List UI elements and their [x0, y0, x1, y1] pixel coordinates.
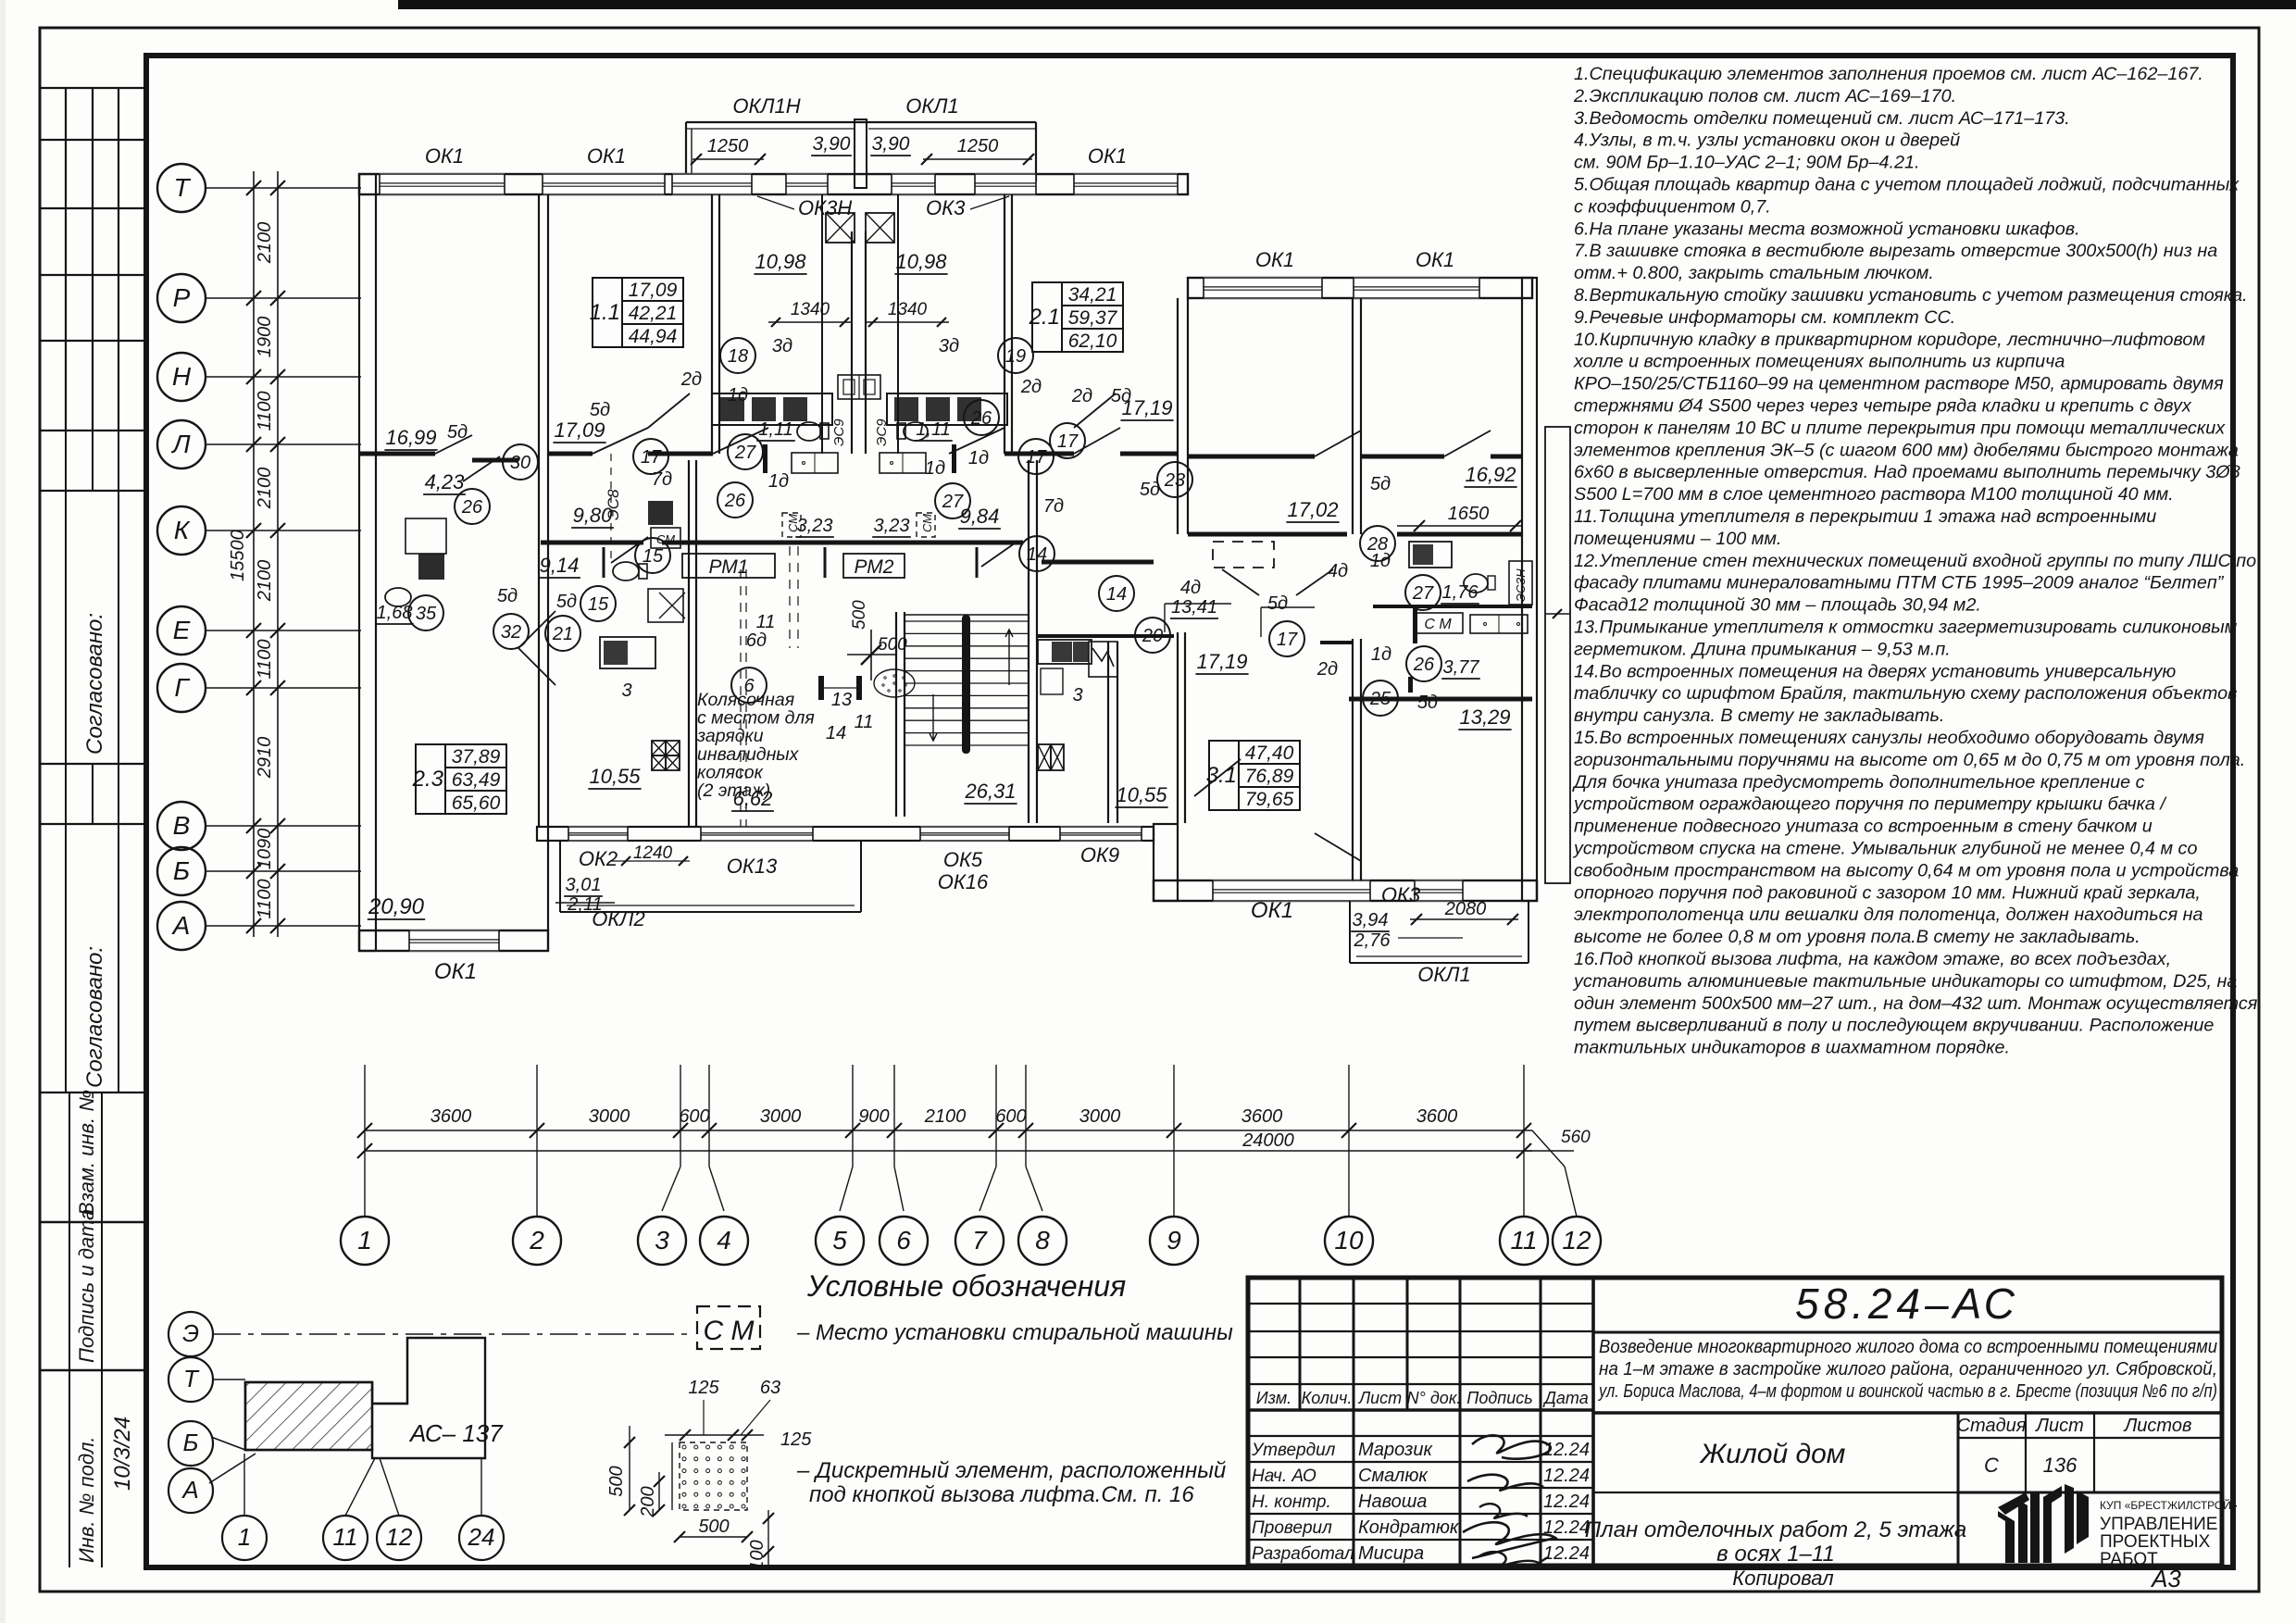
svg-text:125: 125: [688, 1378, 719, 1398]
svg-text:20: 20: [1142, 626, 1163, 646]
svg-text:24000: 24000: [1242, 1130, 1294, 1151]
svg-text:ОК1: ОК1: [1255, 248, 1294, 271]
svg-text:59,37: 59,37: [1068, 307, 1118, 329]
svg-text:Возведение многоквартирного жи: Возведение многоквартирного жилого дома …: [1599, 1337, 2217, 1357]
svg-text:3: 3: [1072, 685, 1082, 705]
svg-text:13: 13: [831, 690, 852, 710]
svg-text:62,10: 62,10: [1068, 331, 1117, 352]
svg-text:ОК9: ОК9: [1080, 843, 1119, 867]
svg-text:ОКЛ2: ОКЛ2: [592, 907, 644, 930]
svg-text:отм.+ 0.800, закрыть стальным: отм.+ 0.800, закрыть стальным лючком.: [1574, 263, 1934, 283]
svg-text:26,31: 26,31: [964, 780, 1016, 803]
svg-text:внутри санузла. В смету не зак: внутри санузла. В смету не закладывать.: [1574, 705, 1944, 726]
svg-text:сторон к панелям 10 ВС и плите: сторон к панелям 10 ВС и плите перекрыти…: [1574, 418, 2226, 438]
svg-text:ОК1: ОК1: [1416, 248, 1454, 271]
svg-text:Н. контр.: Н. контр.: [1252, 1492, 1331, 1512]
svg-text:2д: 2д: [680, 369, 702, 390]
svg-text:20,90: 20,90: [368, 894, 425, 919]
svg-text:6д: 6д: [746, 630, 767, 651]
svg-text:3000: 3000: [589, 1106, 630, 1127]
svg-text:1100: 1100: [255, 391, 275, 431]
svg-text:21: 21: [552, 624, 573, 644]
svg-text:15: 15: [643, 546, 664, 567]
svg-text:С: С: [1984, 1454, 1999, 1477]
svg-text:26: 26: [461, 497, 483, 518]
svg-text:44,94: 44,94: [629, 326, 678, 347]
svg-text:А: А: [181, 1476, 198, 1504]
svg-text:63: 63: [760, 1378, 780, 1398]
svg-text:Т: Т: [173, 173, 191, 202]
svg-text:ОК1: ОК1: [434, 959, 477, 984]
svg-text:ул. Бориса Маслова, 4–м фортом: ул. Бориса Маслова, 4–м фортом и воинско…: [1597, 1381, 2217, 1402]
svg-text:Стадия: Стадия: [1957, 1416, 2027, 1436]
svg-text:ОКЛ1Н: ОКЛ1Н: [732, 94, 800, 118]
svg-text:холле и встроенных помещениях: холле и встроенных помещениях выполнить …: [1573, 352, 2065, 372]
svg-text:17: 17: [1277, 630, 1298, 650]
svg-text:1340: 1340: [791, 300, 830, 319]
svg-text:3,23: 3,23: [874, 516, 910, 536]
svg-text:Копировал: Копировал: [1732, 1567, 1833, 1590]
svg-text:3: 3: [621, 680, 631, 701]
svg-text:9: 9: [1167, 1226, 1181, 1255]
svg-text:2100: 2100: [924, 1106, 967, 1127]
svg-text:3д: 3д: [772, 336, 792, 356]
svg-text:ОКЛ1: ОКЛ1: [1417, 963, 1470, 986]
svg-text:2.1: 2.1: [1029, 305, 1060, 330]
svg-text:Дата: Дата: [1542, 1389, 1589, 1407]
svg-text:13.Примыкание утеплителя к отм: 13.Примыкание утеплителя к отмостки заге…: [1574, 618, 2238, 638]
svg-text:17: 17: [1026, 447, 1047, 468]
svg-text:28: 28: [1366, 534, 1388, 555]
svg-text:Мисира: Мисира: [1358, 1543, 1424, 1564]
svg-text:А3: А3: [2150, 1565, 2181, 1592]
svg-text:1250: 1250: [957, 136, 999, 156]
svg-text:3,23: 3,23: [797, 516, 833, 536]
svg-text:37,89: 37,89: [452, 746, 501, 768]
svg-text:65,60: 65,60: [452, 793, 501, 814]
svg-text:35: 35: [416, 604, 437, 624]
svg-text:10,55: 10,55: [589, 765, 641, 788]
svg-text:Б: Б: [183, 1429, 199, 1456]
svg-text:24: 24: [468, 1523, 495, 1551]
svg-text:ОК1: ОК1: [1251, 898, 1293, 923]
svg-text:14: 14: [826, 723, 846, 743]
svg-text:2д: 2д: [1020, 377, 1042, 397]
svg-text:(2 этаж): (2 этаж): [697, 780, 770, 801]
svg-text:С М: С М: [704, 1316, 755, 1346]
svg-text:7.В зашивке стояка в вестибюле: 7.В зашивке стояка в вестибюле вырезать …: [1574, 241, 2217, 261]
svg-text:ПРОЕКТНЫХ: ПРОЕКТНЫХ: [2100, 1532, 2211, 1552]
svg-text:– Место установки стиральной м: – Место установки стиральной машины: [796, 1320, 1233, 1345]
svg-text:УПРАВЛЕНИЕ: УПРАВЛЕНИЕ: [2100, 1515, 2217, 1534]
svg-text:1.Спецификацию элементов запол: 1.Спецификацию элементов заполнения прое…: [1574, 64, 2203, 84]
svg-text:устройством ограждающего поруч: устройством ограждающего поручня по пери…: [1572, 794, 2167, 815]
svg-text:СМ: СМ: [920, 514, 934, 532]
svg-text:6: 6: [896, 1226, 911, 1255]
svg-text:5д: 5д: [1111, 386, 1131, 406]
svg-text:5д: 5д: [1417, 693, 1438, 713]
svg-text:Н: Н: [172, 362, 192, 391]
svg-text:17: 17: [641, 447, 662, 468]
svg-text:К: К: [174, 516, 191, 544]
svg-text:А: А: [171, 911, 191, 940]
svg-text:под кнопкой вызова лифта.См. п: под кнопкой вызова лифта.См. п. 16: [809, 1482, 1194, 1507]
svg-text:ЭС9: ЭС9: [831, 418, 847, 446]
svg-text:Б: Б: [173, 856, 190, 885]
svg-text:Разработал: Разработал: [1252, 1544, 1354, 1564]
svg-text:1,11: 1,11: [916, 419, 950, 440]
svg-text:2,76: 2,76: [1354, 930, 1391, 951]
svg-text:2.3: 2.3: [412, 767, 444, 792]
svg-text:2080: 2080: [1444, 899, 1487, 919]
svg-text:тактильных индикаторов в шахма: тактильных индикаторов в шахматном поряд…: [1574, 1038, 2010, 1058]
svg-text:РМ2: РМ2: [855, 556, 894, 578]
svg-text:Подпись и дата: Подпись и дата: [75, 1209, 98, 1363]
svg-text:электрополотенца или вешалки д: электрополотенца или вешалки для полотен…: [1574, 905, 2203, 925]
svg-text:1900: 1900: [255, 317, 275, 358]
svg-text:РМ1: РМ1: [709, 556, 749, 578]
svg-text:900: 900: [858, 1106, 889, 1127]
svg-text:1100: 1100: [255, 639, 275, 679]
svg-text:9,80: 9,80: [573, 504, 614, 527]
svg-text:3,94: 3,94: [1353, 910, 1389, 930]
svg-text:– Дискретный элемент, располож: – Дискретный элемент, расположенный: [796, 1458, 1226, 1483]
svg-text:2100: 2100: [255, 560, 275, 603]
svg-text:7д: 7д: [1043, 496, 1064, 517]
svg-text:2д: 2д: [1316, 659, 1338, 680]
svg-text:27: 27: [734, 443, 756, 463]
svg-text:Инв. № подл.: Инв. № подл.: [75, 1436, 98, 1563]
svg-text:4д: 4д: [1180, 578, 1201, 598]
svg-text:С М: С М: [1424, 617, 1452, 632]
svg-text:23: 23: [1164, 470, 1185, 491]
svg-text:17,02: 17,02: [1287, 498, 1338, 521]
svg-text:Марозик: Марозик: [1358, 1440, 1433, 1460]
svg-text:1д: 1д: [925, 458, 945, 479]
svg-text:Проверил: Проверил: [1252, 1518, 1332, 1538]
svg-text:27: 27: [942, 492, 964, 512]
svg-text:5д: 5д: [1370, 474, 1391, 494]
svg-text:1: 1: [238, 1523, 251, 1551]
svg-text:26: 26: [970, 408, 992, 429]
svg-text:КУП «БРЕСТЖИЛСТРОЙ»: КУП «БРЕСТЖИЛСТРОЙ»: [2100, 1498, 2238, 1512]
svg-text:12: 12: [1562, 1226, 1591, 1255]
svg-text:12.24: 12.24: [1543, 1466, 1590, 1486]
svg-text:устройством спуска на стене. У: устройством спуска на стене. Умывальник …: [1572, 839, 2197, 859]
svg-text:Л: Л: [170, 430, 191, 458]
svg-text:11: 11: [855, 712, 874, 732]
svg-text:ОК5: ОК5: [943, 848, 983, 871]
svg-text:34,21: 34,21: [1068, 284, 1117, 306]
svg-text:План отделочных работ 2, 5 эта: План отделочных работ 2, 5 этажа: [1585, 1517, 1966, 1542]
svg-text:11.Толщина утеплителя в перекр: 11.Толщина утеплителя в перекрытии 1 эта…: [1574, 506, 2156, 527]
svg-text:2100: 2100: [255, 468, 275, 510]
svg-text:14.Во встроенных помещения на: 14.Во встроенных помещения на дверях уст…: [1574, 661, 2176, 681]
svg-text:Фасад12 толщиной 30 мм – площа: Фасад12 толщиной 30 мм – площадь 30,94 м…: [1574, 595, 1981, 616]
svg-text:12.24: 12.24: [1543, 1543, 1590, 1564]
svg-text:Подпись: Подпись: [1466, 1389, 1532, 1407]
svg-text:1250: 1250: [707, 136, 749, 156]
svg-text:26: 26: [724, 491, 746, 511]
svg-text:6х60 в высверленные отверстия.: 6х60 в высверленные отверстия. Над проем…: [1574, 462, 2240, 482]
svg-text:1100: 1100: [255, 879, 275, 918]
svg-text:Смалюк: Смалюк: [1358, 1466, 1429, 1486]
svg-text:500: 500: [698, 1517, 729, 1537]
svg-text:ОК1: ОК1: [587, 144, 626, 168]
svg-text:30: 30: [510, 453, 530, 473]
svg-text:с коэффициентом 0,7.: с коэффициентом 0,7.: [1574, 196, 1771, 217]
svg-text:1.1: 1.1: [590, 300, 620, 325]
svg-text:1д: 1д: [768, 471, 789, 492]
svg-text:3600: 3600: [1416, 1106, 1458, 1127]
svg-text:установить алюминиевые тактиль: установить алюминиевые тактильные индика…: [1572, 971, 2237, 992]
svg-text:РАБОТ: РАБОТ: [2100, 1550, 2158, 1569]
svg-text:3: 3: [655, 1226, 669, 1255]
svg-text:9,84: 9,84: [960, 505, 1000, 528]
svg-text:5д: 5д: [497, 586, 518, 606]
svg-text:2910: 2910: [255, 737, 275, 780]
svg-text:16,92: 16,92: [1465, 463, 1516, 486]
svg-text:2д: 2д: [1071, 386, 1092, 406]
svg-text:Колич.: Колич.: [1302, 1389, 1353, 1407]
svg-text:9.Речевые информаторы см. комп: 9.Речевые информаторы см. комплект СС.: [1574, 307, 1955, 328]
svg-text:17,09: 17,09: [554, 418, 605, 442]
svg-text:1д: 1д: [728, 385, 748, 406]
svg-text:3,77: 3,77: [1443, 657, 1480, 678]
svg-text:13,29: 13,29: [1459, 705, 1510, 729]
svg-text:элементов крепления ЭК–5 (с ша: элементов крепления ЭК–5 (с шагом 600 мм…: [1574, 440, 2239, 460]
svg-text:500: 500: [850, 600, 869, 630]
svg-text:Р: Р: [173, 283, 191, 312]
svg-text:см. 90М Бр–1.10–УАС 2–1; 90М Б: см. 90М Бр–1.10–УАС 2–1; 90М Бр–4.21.: [1574, 153, 1920, 173]
svg-text:Утвердил: Утвердил: [1251, 1441, 1336, 1460]
svg-text:14: 14: [1027, 544, 1047, 565]
svg-text:высоте не более 0,8 м от уровн: высоте не более 0,8 м от уровня пола.В с…: [1574, 927, 2140, 947]
svg-text:ОК16: ОК16: [938, 870, 989, 893]
svg-text:13,41: 13,41: [1171, 597, 1217, 618]
svg-text:ЭС9: ЭС9: [874, 418, 890, 446]
svg-text:S500 L=700 мм в слое цементног: S500 L=700 мм в слое цементного раствора…: [1574, 484, 2174, 505]
svg-text:1д: 1д: [1371, 644, 1391, 665]
svg-text:1д: 1д: [968, 448, 989, 468]
svg-text:8.Вертикальную стойку зашивки: 8.Вертикальную стойку зашивки установить…: [1574, 285, 2248, 306]
svg-text:7: 7: [972, 1226, 988, 1255]
svg-text:16.Под кнопкой вызова лифта, н: 16.Под кнопкой вызова лифта, на каждом э…: [1574, 949, 2171, 969]
svg-text:600: 600: [679, 1106, 709, 1127]
svg-text:герметиком. Длина примыкания –: герметиком. Длина примыкания – 9,53 м.п.: [1574, 639, 1951, 659]
svg-text:10,55: 10,55: [1116, 783, 1167, 806]
svg-text:10,98: 10,98: [895, 250, 947, 273]
svg-text:1340: 1340: [888, 300, 928, 319]
svg-text:26: 26: [1413, 655, 1435, 675]
svg-text:63,49: 63,49: [452, 769, 501, 791]
svg-text:ОК1: ОК1: [1088, 144, 1127, 168]
svg-text:помещениями – 100 мм.: помещениями – 100 мм.: [1574, 529, 1781, 549]
svg-text:3,90: 3,90: [813, 133, 851, 155]
svg-text:15.Во встроенных помещениях са: 15.Во встроенных помещениях санузлы необ…: [1574, 728, 2204, 748]
svg-text:10: 10: [1334, 1226, 1364, 1255]
svg-text:47,40: 47,40: [1245, 743, 1294, 764]
svg-text:3000: 3000: [760, 1106, 802, 1127]
svg-text:Т: Т: [183, 1365, 200, 1392]
svg-text:11: 11: [333, 1523, 358, 1551]
svg-text:12: 12: [386, 1523, 413, 1551]
svg-text:N° док.: N° док.: [1407, 1389, 1462, 1407]
svg-text:15500: 15500: [228, 530, 248, 581]
svg-text:табличку со шрифтом Брайля, та: табличку со шрифтом Брайля, тактильную с…: [1574, 683, 2237, 704]
svg-text:125: 125: [780, 1429, 812, 1450]
svg-text:200: 200: [638, 1486, 658, 1517]
svg-text:один элемент 500х500 мм–27 шт.: один элемент 500х500 мм–27 шт., на дом–4…: [1574, 993, 2258, 1014]
svg-text:опорного поручня под раковиной: опорного поручня под раковиной с зазором…: [1574, 882, 2201, 903]
svg-text:8: 8: [1035, 1226, 1050, 1255]
svg-text:27: 27: [1412, 583, 1434, 604]
svg-text:ОК3: ОК3: [926, 196, 966, 219]
svg-text:10,98: 10,98: [755, 250, 806, 273]
svg-text:500: 500: [606, 1466, 627, 1496]
svg-text:11: 11: [1510, 1226, 1537, 1255]
svg-text:5.Общая площадь квартир дана с: 5.Общая площадь квартир дана с учетом пл…: [1574, 175, 2240, 195]
svg-text:100: 100: [747, 1540, 767, 1570]
svg-text:19: 19: [1005, 346, 1026, 367]
svg-text:42,21: 42,21: [629, 303, 678, 324]
svg-text:25: 25: [1369, 689, 1391, 709]
svg-text:1,76: 1,76: [1442, 582, 1479, 603]
svg-text:5д: 5д: [556, 592, 577, 612]
svg-text:ЭСЗН: ЭСЗН: [1514, 568, 1528, 602]
svg-text:5д: 5д: [1267, 593, 1288, 614]
svg-text:Е: Е: [173, 616, 191, 644]
svg-text:Нач. АО: Нач. АО: [1252, 1467, 1316, 1486]
svg-text:17: 17: [1057, 431, 1079, 452]
svg-text:Лист: Лист: [1358, 1389, 1402, 1407]
svg-text:АС– 137: АС– 137: [408, 1419, 504, 1447]
svg-text:2100: 2100: [255, 222, 275, 265]
svg-text:2.Экспликацию полов см. лист А: 2.Экспликацию полов см. лист АС–169–170.: [1573, 86, 1956, 106]
svg-text:4.Узлы, в т.ч. узлы установки: 4.Узлы, в т.ч. узлы установки окон и две…: [1574, 131, 1960, 151]
svg-text:4,23: 4,23: [425, 470, 466, 493]
svg-text:5д: 5д: [590, 400, 610, 420]
svg-text:1090: 1090: [255, 829, 275, 870]
svg-text:5: 5: [832, 1226, 847, 1255]
svg-text:применение подвесного унитаза: применение подвесного унитаза со встроен…: [1574, 817, 2152, 837]
svg-text:2: 2: [529, 1226, 544, 1255]
svg-text:в осях 1–11: в осях 1–11: [1716, 1542, 1835, 1567]
svg-text:560: 560: [1561, 1128, 1591, 1147]
svg-text:9,14: 9,14: [540, 554, 580, 577]
svg-text:500: 500: [878, 635, 907, 655]
svg-text:Согласовано:: Согласовано:: [82, 613, 107, 755]
svg-text:14: 14: [1106, 584, 1127, 605]
svg-text:17,19: 17,19: [1196, 650, 1247, 673]
svg-text:фасаду плитами минераловатными: фасаду плитами минераловатными ПТМ СТБ 1…: [1574, 573, 2225, 593]
svg-text:Э: Э: [182, 1319, 199, 1347]
svg-text:ОК13: ОК13: [727, 855, 778, 878]
svg-text:Жилой дом: Жилой дом: [1699, 1439, 1846, 1469]
svg-text:1: 1: [357, 1226, 372, 1255]
svg-text:стержнями Ø4 S500 через через: стержнями Ø4 S500 через через четыре ряд…: [1574, 396, 2192, 417]
svg-text:10.Кирпичную кладку в прикварт: 10.Кирпичную кладку в приквартирном кори…: [1574, 330, 2205, 350]
svg-text:3.Ведомость отделки помещений: 3.Ведомость отделки помещений см. лист А…: [1574, 108, 2070, 129]
svg-text:1650: 1650: [1448, 504, 1490, 524]
svg-text:10/3/24: 10/3/24: [110, 1417, 135, 1491]
svg-text:ОКЛ1: ОКЛ1: [905, 94, 958, 118]
svg-text:136: 136: [2043, 1454, 2078, 1477]
svg-text:79,65: 79,65: [1245, 789, 1294, 810]
svg-text:4: 4: [717, 1226, 731, 1255]
svg-text:КРО–150/25/СТБ1160–99 на цемен: КРО–150/25/СТБ1160–99 на цементном раств…: [1574, 374, 2224, 394]
svg-text:17,09: 17,09: [629, 280, 678, 301]
svg-text:12.Утепление стен технических: 12.Утепление стен технических помещений …: [1574, 551, 2256, 571]
svg-text:3000: 3000: [1079, 1106, 1121, 1127]
svg-text:7д: 7д: [652, 469, 672, 490]
svg-text:Лист: Лист: [2034, 1416, 2084, 1436]
svg-text:76,89: 76,89: [1245, 766, 1294, 787]
svg-text:Взам. инв. №: Взам. инв. №: [75, 1090, 98, 1216]
svg-text:15: 15: [588, 594, 609, 615]
svg-text:В: В: [173, 811, 191, 840]
svg-text:18: 18: [728, 346, 748, 367]
svg-text:Г: Г: [174, 673, 190, 702]
svg-text:600: 600: [995, 1106, 1026, 1127]
svg-text:58.24–АС: 58.24–АС: [1795, 1280, 2019, 1328]
svg-text:12.24: 12.24: [1543, 1492, 1590, 1512]
svg-text:3,90: 3,90: [872, 133, 910, 155]
svg-text:Для бочка унитаза предусмотрет: Для бочка унитаза предусмотреть дополнит…: [1572, 772, 2145, 793]
svg-text:Изм.: Изм.: [1256, 1389, 1291, 1407]
svg-text:путем высверливаний в полу и п: путем высверливаний в полу и последующем…: [1574, 1016, 2214, 1036]
svg-text:свободным пространством на выс: свободным пространством на высоту 0,64 м…: [1574, 860, 2239, 880]
svg-text:16,99: 16,99: [385, 426, 436, 449]
svg-text:ОК1: ОК1: [425, 144, 464, 168]
svg-text:ОК2: ОК2: [579, 847, 618, 870]
svg-text:Условные обозначения: Условные обозначения: [806, 1269, 1126, 1303]
svg-text:3д: 3д: [939, 336, 959, 356]
svg-text:1240: 1240: [633, 843, 673, 863]
svg-text:3600: 3600: [430, 1106, 472, 1127]
svg-text:3600: 3600: [1242, 1106, 1283, 1127]
svg-text:горизонтальными поручнями на в: горизонтальными поручнями на высоте от 0…: [1574, 750, 2245, 770]
svg-text:1,68: 1,68: [377, 603, 413, 623]
svg-text:Согласовано:: Согласовано:: [82, 946, 107, 1088]
svg-text:Кондратюк: Кондратюк: [1358, 1517, 1460, 1538]
svg-text:на 1–м этаже в застройке жилог: на 1–м этаже в застройке жилого района, …: [1599, 1359, 2217, 1380]
svg-text:Листов: Листов: [2123, 1416, 2192, 1436]
svg-text:32: 32: [501, 622, 521, 643]
svg-text:3,01: 3,01: [566, 875, 602, 895]
svg-text:11: 11: [756, 612, 776, 632]
svg-text:Навоша: Навоша: [1358, 1492, 1427, 1512]
svg-text:6.На плане указаны места возмо: 6.На плане указаны места возможной устан…: [1574, 218, 2080, 239]
svg-text:ОК3: ОК3: [1381, 883, 1421, 906]
